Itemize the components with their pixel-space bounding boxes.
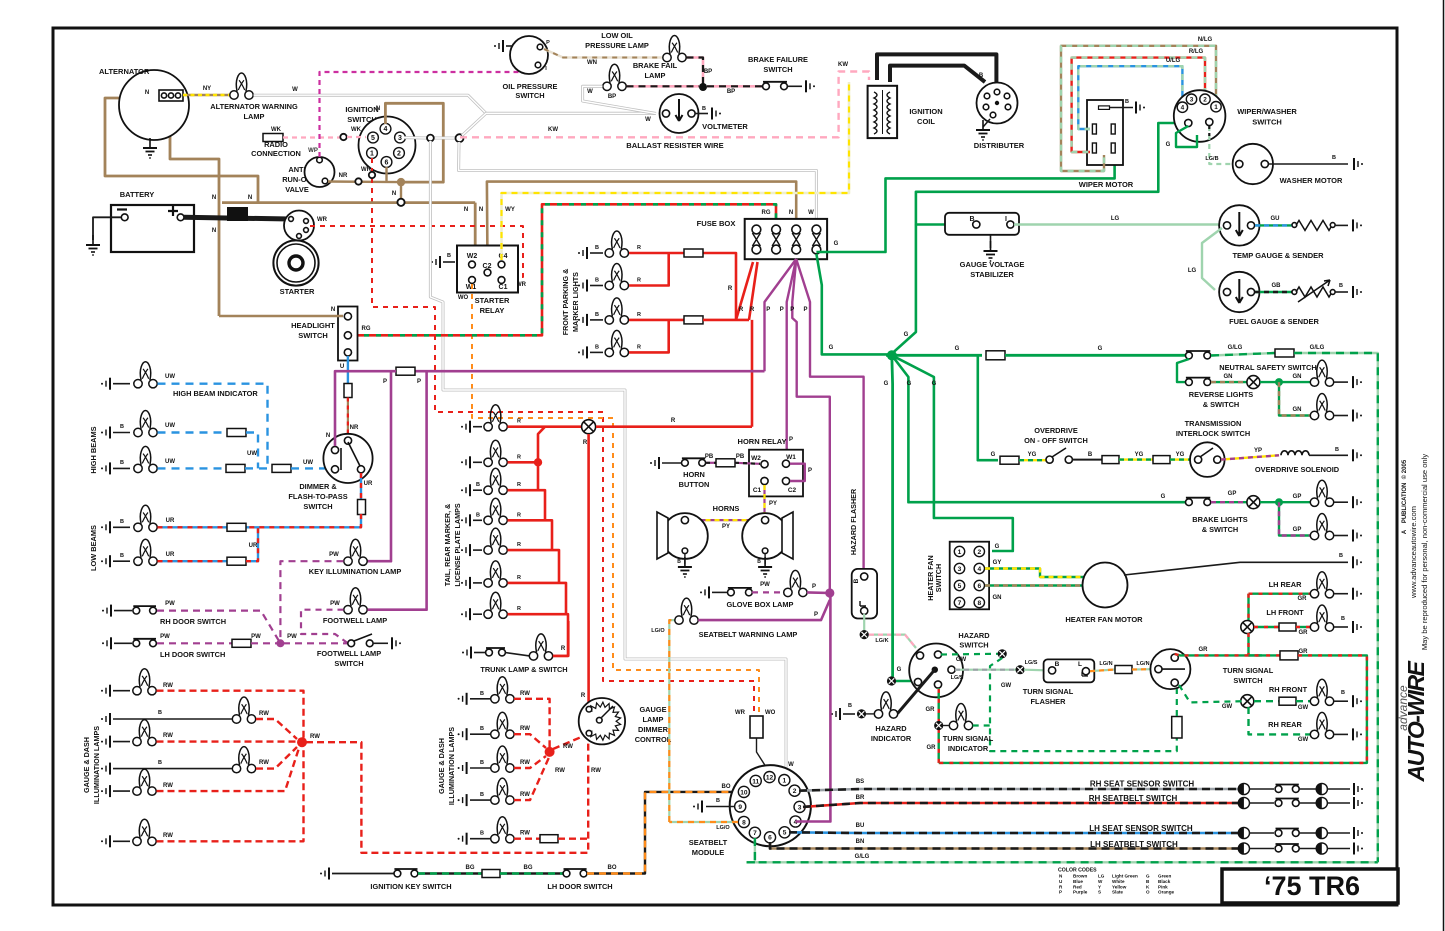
- module pin9 ground: [706, 806, 734, 808]
- svg-text:INDICATOR: INDICATOR: [948, 744, 989, 753]
- gauge lamp row 4: [101, 763, 110, 775]
- turn signal switch: [1150, 649, 1190, 689]
- headlight switch: [338, 307, 358, 361]
- high beam lamp 1: [101, 427, 110, 439]
- svg-text:G/LG: G/LG: [1310, 345, 1325, 351]
- turn signal indicator: [934, 721, 943, 730]
- svg-text:LH DOOR SWITCH: LH DOOR SWITCH: [160, 650, 225, 659]
- svg-text:R: R: [728, 286, 733, 292]
- svg-text:B: B: [1125, 99, 1129, 105]
- heater fan motor: [1083, 563, 1128, 608]
- svg-text:HAZARD: HAZARD: [958, 631, 990, 640]
- svg-text:HEADLIGHT: HEADLIGHT: [291, 321, 335, 330]
- wire N ignition pin6 down: [385, 167, 387, 182]
- washer motor: [1233, 144, 1273, 184]
- wire R/LG wiper: [1072, 58, 1205, 152]
- svg-text:4: 4: [977, 566, 981, 573]
- svg-text:RW: RW: [163, 833, 173, 839]
- svg-text:B: B: [120, 460, 124, 466]
- module pin6 BN row: [770, 842, 1238, 849]
- svg-text:GW: GW: [1001, 683, 1012, 689]
- svg-text:STARTER: STARTER: [280, 287, 315, 296]
- svg-text:B: B: [158, 760, 162, 766]
- svg-text:R/LG: R/LG: [1189, 49, 1204, 55]
- svg-text:BUTTON: BUTTON: [679, 480, 710, 489]
- starter motor: [273, 240, 318, 285]
- svg-text:B: B: [1335, 447, 1339, 453]
- green bus resistor: [986, 351, 1005, 360]
- wire N junction to bus ring: [400, 182, 402, 203]
- svg-text:Pink: Pink: [1158, 884, 1168, 889]
- svg-text:COIL: COIL: [917, 117, 935, 126]
- svg-text:LOW OIL: LOW OIL: [601, 31, 633, 40]
- svg-text:GR: GR: [927, 745, 937, 751]
- gauge lamp right row 5: [458, 833, 467, 845]
- wire GW hazard to xlamp: [941, 653, 998, 656]
- svg-text:W: W: [587, 89, 593, 95]
- wire PW footwell lamp to switch: [301, 610, 348, 644]
- svg-text:9: 9: [738, 804, 742, 811]
- svg-text:GW: GW: [1298, 705, 1309, 711]
- wire W brake fail lamp to voltmeter: [583, 86, 656, 113]
- svg-text:TEMP GAUGE & SENDER: TEMP GAUGE & SENDER: [1232, 251, 1324, 260]
- svg-text:INDICATOR: INDICATOR: [871, 734, 912, 743]
- low beam lamp 1: [101, 521, 110, 533]
- starter relay B terminal: [443, 261, 455, 263]
- wire LG/B to washer motor: [1209, 126, 1233, 164]
- front marker lamp 4: [578, 346, 587, 358]
- svg-text:G: G: [897, 667, 902, 673]
- svg-text:SWITCH: SWITCH: [334, 659, 363, 668]
- svg-text:MODULE: MODULE: [692, 848, 725, 857]
- svg-text:R: R: [581, 693, 586, 699]
- svg-text:RW: RW: [520, 792, 530, 798]
- svg-text:LH FRONT: LH FRONT: [1266, 608, 1304, 617]
- svg-text:HAZARD: HAZARD: [875, 724, 907, 733]
- svg-text:FUEL GAUGE & SENDER: FUEL GAUGE & SENDER: [1229, 317, 1319, 326]
- wire R fuse1 down to tail bus: [751, 320, 754, 427]
- brake lamp 1: [1310, 480, 1333, 506]
- svg-text:2: 2: [977, 549, 981, 556]
- gauge right wiring: [514, 699, 550, 748]
- svg-text:R: R: [517, 419, 521, 425]
- svg-text:N: N: [479, 207, 483, 213]
- wire LG/N flasher to ts switch: [1090, 670, 1115, 672]
- wire N ignition pin4 loop to relay feed: [385, 103, 443, 182]
- svg-text:GW: GW: [1222, 704, 1233, 710]
- rh seatbelt connectors: [1238, 797, 1249, 808]
- svg-text:HAZARD FLASHER: HAZARD FLASHER: [849, 488, 858, 555]
- svg-text:SWITCH: SWITCH: [959, 641, 988, 650]
- svg-text:RH REAR: RH REAR: [1268, 720, 1302, 729]
- svg-text:N: N: [789, 210, 793, 216]
- svg-text:N: N: [248, 195, 252, 201]
- fusible link: [227, 207, 248, 221]
- wire N/LG wiper: [1061, 46, 1216, 171]
- svg-text:LAMP: LAMP: [645, 71, 666, 80]
- rh door switch: [102, 605, 111, 617]
- svg-text:10: 10: [740, 789, 748, 796]
- title box: [1222, 869, 1398, 903]
- svg-text:R: R: [750, 307, 755, 313]
- svg-text:2: 2: [793, 788, 797, 795]
- svg-text:4: 4: [1181, 105, 1185, 112]
- svg-text:SWITCH: SWITCH: [298, 331, 328, 340]
- gauge lamp row 1: [101, 685, 110, 697]
- svg-text:Blue: Blue: [1073, 879, 1083, 884]
- svg-text:B: B: [480, 792, 484, 798]
- svg-text:BALLAST RESISTER WIRE: BALLAST RESISTER WIRE: [626, 141, 723, 150]
- svg-text:WASHER MOTOR: WASHER MOTOR: [1280, 176, 1343, 185]
- svg-text:BP: BP: [727, 89, 735, 95]
- seatbelt module: [730, 765, 811, 846]
- alternator: [119, 70, 189, 140]
- svg-text:RH FRONT: RH FRONT: [1269, 685, 1308, 694]
- wire GU temp sender: [1255, 224, 1293, 226]
- wire P module pin4 riser: [796, 593, 831, 822]
- svg-text:B: B: [1339, 283, 1343, 289]
- svg-text:B: B: [848, 703, 852, 709]
- svg-text:WP: WP: [308, 148, 318, 154]
- svg-text:G: G: [1146, 874, 1150, 879]
- svg-text:8: 8: [977, 600, 981, 607]
- wire GY heater: [985, 569, 1085, 578]
- svg-text:R: R: [517, 542, 521, 548]
- svg-text:advance: advance: [1396, 685, 1410, 731]
- svg-text:RG: RG: [762, 210, 771, 216]
- svg-text:R: R: [517, 575, 521, 581]
- svg-text:1: 1: [370, 151, 374, 158]
- svg-text:YP: YP: [1254, 448, 1262, 454]
- svg-text:YG: YG: [1135, 452, 1144, 458]
- svg-text:C1: C1: [753, 487, 762, 494]
- svg-text:GR: GR: [1299, 630, 1309, 636]
- svg-text:P: P: [808, 468, 812, 474]
- wire G fuse4: [816, 156, 1114, 252]
- svg-text:RW: RW: [563, 744, 573, 750]
- wire R down to gauge lamp dimmer: [587, 434, 590, 706]
- svg-text:B: B: [716, 798, 720, 804]
- svg-text:SWITCH: SWITCH: [515, 91, 544, 100]
- pw junction: [276, 639, 284, 647]
- svg-text:IGNITION: IGNITION: [345, 105, 378, 114]
- svg-text:HEATER FAN MOTOR: HEATER FAN MOTOR: [1065, 615, 1143, 624]
- svg-text:WO: WO: [765, 710, 776, 716]
- seatbelt warning lamp: [675, 598, 698, 624]
- wire LG/K to hazard switch: [869, 635, 916, 648]
- rw junction right: [545, 747, 555, 757]
- svg-text:LOW BEAMS: LOW BEAMS: [89, 525, 98, 571]
- svg-text:WK: WK: [351, 127, 362, 133]
- svg-text:P: P: [780, 307, 784, 313]
- svg-text:W: W: [1098, 879, 1103, 884]
- svg-text:G: G: [1166, 142, 1171, 148]
- svg-text:TRUNK LAMP & SWITCH: TRUNK LAMP & SWITCH: [480, 665, 567, 674]
- svg-text:ANTI: ANTI: [288, 165, 305, 174]
- svg-text:HORN: HORN: [683, 470, 705, 479]
- svg-text:P: P: [789, 437, 793, 443]
- key illumination lamp: [344, 539, 367, 565]
- svg-text:LG: LG: [1098, 874, 1105, 879]
- wire W down to seatbelt module: [430, 141, 786, 774]
- svg-text:U: U: [340, 364, 344, 370]
- wire N bus to starter relay: [475, 203, 486, 267]
- svg-text:B: B: [595, 344, 599, 350]
- svg-text:ILLUMINATION LAMPS: ILLUMINATION LAMPS: [92, 726, 101, 804]
- wire LG/O seatbelt warning lamp riser: [669, 620, 675, 822]
- svg-text:LG/O: LG/O: [651, 628, 665, 634]
- lh seatbelt connectors: [1238, 843, 1249, 854]
- svg-text:LG/K: LG/K: [875, 638, 888, 644]
- oil pressure switch: [510, 36, 548, 74]
- front marker lamp 2: [578, 280, 587, 292]
- horn button: [650, 457, 659, 469]
- svg-text:B: B: [595, 245, 599, 251]
- wire BO lh door to module: [587, 792, 738, 874]
- svg-text:NR: NR: [339, 173, 348, 179]
- svg-text:2: 2: [1203, 97, 1207, 104]
- wire GW ts switch right: [1179, 685, 1243, 702]
- svg-text:LG/S: LG/S: [1025, 660, 1038, 666]
- svg-text:N: N: [145, 90, 149, 96]
- wire GR ts switch up: [1175, 654, 1262, 655]
- svg-text:WO: WO: [458, 295, 469, 301]
- svg-text:LH DOOR SWITCH: LH DOOR SWITCH: [547, 882, 612, 891]
- front marker wiring: [629, 252, 684, 255]
- green branch overdrive: [978, 355, 998, 460]
- wire W to voltmeter: [462, 113, 656, 135]
- svg-text:GP: GP: [1293, 527, 1302, 533]
- svg-text:FLASH-TO-PASS: FLASH-TO-PASS: [288, 492, 347, 501]
- svg-text:N: N: [212, 195, 216, 201]
- svg-text:R: R: [739, 307, 744, 313]
- svg-text:Black: Black: [1158, 879, 1171, 884]
- svg-text:CONNECTION: CONNECTION: [251, 149, 301, 158]
- fuse 2: [772, 225, 781, 234]
- tail lamp 6: [461, 577, 470, 589]
- svg-text:W: W: [808, 210, 814, 216]
- svg-text:R: R: [637, 278, 641, 284]
- svg-text:UW: UW: [165, 459, 175, 465]
- svg-text:RW: RW: [310, 734, 320, 740]
- svg-text:OVERDRIVE: OVERDRIVE: [1034, 426, 1078, 435]
- lh door switch: [102, 637, 111, 649]
- wire NY: [183, 94, 230, 96]
- alternator warning lamp: [230, 73, 253, 99]
- svg-text:RADIO: RADIO: [264, 140, 288, 149]
- svg-text:Red: Red: [1073, 884, 1082, 889]
- wire BP lamp to junction: [687, 58, 704, 88]
- svg-text:G: G: [1161, 494, 1166, 500]
- alternator N wire from connector: [170, 101, 219, 316]
- svg-text:GN: GN: [993, 595, 1002, 601]
- svg-text:TRANSMISSION: TRANSMISSION: [1185, 419, 1242, 428]
- svg-text:GAUGE VOLTAGE: GAUGE VOLTAGE: [960, 260, 1025, 269]
- svg-text:& SWITCH: & SWITCH: [1202, 525, 1239, 534]
- svg-text:B: B: [1332, 155, 1336, 161]
- svg-text:PW: PW: [330, 601, 340, 607]
- wire GN heater: [985, 584, 1083, 586]
- svg-text:DIMMER: DIMMER: [638, 725, 669, 734]
- svg-text:PY: PY: [722, 524, 730, 530]
- svg-text:BU: BU: [856, 823, 865, 829]
- svg-text:GY: GY: [993, 560, 1002, 566]
- gauge lamp dimmer control: [579, 698, 625, 744]
- svg-text:BN: BN: [856, 839, 865, 845]
- svg-text:PRESSURE LAMP: PRESSURE LAMP: [585, 41, 649, 50]
- svg-text:BS: BS: [856, 779, 864, 785]
- svg-text:Brown: Brown: [1073, 874, 1087, 879]
- wire WK radio to ignition: [283, 136, 340, 138]
- distributor: [977, 83, 1018, 124]
- wire GW xlamp down and to ts switch: [990, 658, 1177, 751]
- svg-text:RH SEATBELT SWITCH: RH SEATBELT SWITCH: [1089, 794, 1178, 803]
- wire B hazard indicator to switch: [898, 670, 935, 714]
- wire PY relay C1 to horns: [763, 485, 765, 520]
- svg-text:B: B: [595, 312, 599, 318]
- wire GB fuel sender: [1255, 291, 1293, 293]
- svg-text:KW: KW: [838, 62, 848, 68]
- svg-text:REVERSE LIGHTS: REVERSE LIGHTS: [1189, 390, 1254, 399]
- svg-text:GR: GR: [1199, 647, 1209, 653]
- svg-text:HIGH BEAMS: HIGH BEAMS: [89, 426, 98, 473]
- svg-text:FLASHER: FLASHER: [1031, 697, 1067, 706]
- svg-text:C1: C1: [499, 284, 508, 291]
- fuel gauge: [1219, 272, 1259, 312]
- svg-text:BP: BP: [704, 69, 712, 75]
- svg-text:IGNITION: IGNITION: [909, 107, 942, 116]
- tail lamp 5: [461, 544, 470, 556]
- svg-text:6: 6: [385, 160, 389, 167]
- svg-text:B: B: [677, 559, 681, 565]
- rw bus to bottom: [306, 737, 588, 853]
- wire W ignition pin3: [404, 136, 427, 139]
- fuse 3: [792, 225, 801, 234]
- svg-text:RW: RW: [520, 831, 530, 837]
- green branch heater: [892, 355, 1013, 551]
- svg-text:GR: GR: [1299, 649, 1309, 655]
- svg-text:LH SEAT SENSOR SWITCH: LH SEAT SENSOR SWITCH: [1089, 824, 1193, 833]
- svg-text:TURN SIGNAL: TURN SIGNAL: [943, 734, 994, 743]
- footwell lamp: [344, 588, 367, 614]
- svg-text:G: G: [991, 452, 996, 458]
- brake light switch: [1186, 498, 1211, 506]
- svg-text:P: P: [803, 307, 807, 313]
- wire RG headlight to fuse: [352, 204, 776, 335]
- hazard indicator: [831, 708, 840, 720]
- lh seat sensor connectors: [1238, 827, 1249, 838]
- svg-text:RH DOOR SWITCH: RH DOOR SWITCH: [160, 617, 226, 626]
- svg-text:R: R: [517, 482, 521, 488]
- svg-text:W: W: [292, 87, 298, 93]
- svg-text:LG: LG: [1188, 268, 1197, 274]
- green branch brake lights: [892, 355, 1185, 502]
- svg-text:FOOTWELL LAMP: FOOTWELL LAMP: [323, 616, 387, 625]
- svg-text:GAUGE & DASH: GAUGE & DASH: [437, 738, 446, 794]
- svg-text:W2: W2: [751, 455, 761, 462]
- svg-text:White: White: [1112, 879, 1125, 884]
- svg-text:TAIL, REAR MARKER, &: TAIL, REAR MARKER, &: [443, 504, 452, 587]
- svg-text:N: N: [464, 207, 468, 213]
- wire LG/S hazard to flasher: [955, 669, 1016, 671]
- svg-text:B: B: [120, 519, 124, 525]
- svg-text:Light Green: Light Green: [1112, 874, 1138, 879]
- svg-text:PW: PW: [165, 601, 175, 607]
- gauge lamp row 5: [101, 785, 110, 797]
- purple fan from fuse3: [765, 259, 797, 371]
- svg-text:R: R: [517, 606, 521, 612]
- svg-text:GAUGE & DASH: GAUGE & DASH: [82, 737, 91, 793]
- wire U headlight down: [347, 356, 349, 384]
- svg-text:B: B: [1339, 553, 1343, 559]
- wire N relay to fuse3: [487, 182, 796, 266]
- svg-text:B: B: [480, 760, 484, 766]
- svg-text:MARKER LIGHTS: MARKER LIGHTS: [571, 272, 580, 332]
- svg-text:WN: WN: [587, 60, 597, 66]
- tail lamp bus: [508, 425, 582, 428]
- reverse lights switch: [1177, 359, 1189, 382]
- svg-text:B: B: [979, 73, 984, 79]
- svg-text:P: P: [383, 379, 387, 385]
- green bus x-lamp hazard: [887, 676, 896, 685]
- svg-text:B: B: [1341, 616, 1345, 622]
- svg-text:R: R: [583, 440, 588, 446]
- svg-text:G: G: [995, 544, 1000, 550]
- svg-text:S: S: [1098, 890, 1101, 895]
- svg-text:KW: KW: [548, 127, 558, 133]
- svg-text:G: G: [834, 241, 839, 247]
- svg-text:P: P: [766, 307, 770, 313]
- svg-text:SWITCH: SWITCH: [303, 502, 332, 511]
- svg-text:P: P: [417, 379, 421, 385]
- svg-text:G: G: [932, 381, 937, 387]
- radio connection: [263, 134, 283, 142]
- svg-text:GW: GW: [956, 657, 967, 663]
- svg-text:11: 11: [752, 778, 759, 785]
- gauge lamp right row 2: [458, 728, 467, 740]
- svg-text:R: R: [561, 646, 566, 652]
- wire GR down to ts switch row: [1249, 633, 1281, 655]
- tail lamp 2: [461, 456, 470, 468]
- svg-text:P: P: [790, 307, 794, 313]
- gauge lamp row 3: [101, 736, 110, 748]
- svg-text:Orange: Orange: [1158, 890, 1175, 895]
- svg-text:I: I: [1005, 216, 1007, 223]
- gauge lamp right row 4: [458, 794, 467, 806]
- alternator ground: [143, 138, 157, 159]
- wire NR to dimmer: [347, 398, 349, 438]
- svg-text:B: B: [480, 726, 484, 732]
- green bus junction: [886, 354, 982, 357]
- svg-text:OVERDRIVE SOLENOID: OVERDRIVE SOLENOID: [1255, 465, 1340, 474]
- svg-text:UR: UR: [249, 543, 258, 549]
- svg-text:HORNS: HORNS: [713, 504, 740, 513]
- svg-text:NY: NY: [203, 86, 211, 92]
- svg-text:& SWITCH: & SWITCH: [1203, 400, 1240, 409]
- svg-text:6: 6: [977, 583, 981, 590]
- svg-text:N: N: [331, 307, 335, 313]
- svg-text:FOOTWELL LAMP: FOOTWELL LAMP: [317, 649, 381, 658]
- svg-text:LG/B: LG/B: [1205, 156, 1218, 162]
- svg-text:WR: WR: [735, 710, 746, 716]
- svg-text:W2: W2: [467, 253, 478, 260]
- svg-text:NEUTRAL SAFETY SWITCH: NEUTRAL SAFETY SWITCH: [1219, 363, 1316, 372]
- svg-text:RW: RW: [259, 711, 269, 717]
- svg-text:TURN SIGNAL: TURN SIGNAL: [1023, 687, 1074, 696]
- svg-text:DISTRIBUTER: DISTRIBUTER: [974, 141, 1025, 150]
- tail bus lamp x: [582, 420, 596, 434]
- svg-text:ALTERNATOR WARNING: ALTERNATOR WARNING: [210, 102, 298, 111]
